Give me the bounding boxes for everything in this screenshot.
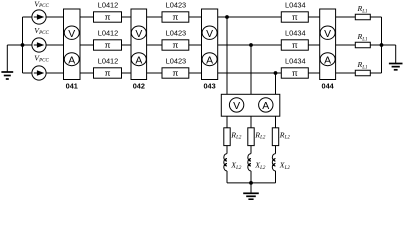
junction right bus node: [380, 43, 384, 47]
measurement block 044 outline: [320, 9, 336, 80]
junction bottom bus node: [249, 181, 253, 185]
wire block 044 to R_L1 phase 1: [336, 16, 356, 18]
pi-section line block L0423: [162, 40, 189, 50]
resistor R_L1 phase 1: [355, 14, 370, 20]
inductor X_L2 phase 2: [248, 154, 251, 171]
svg-text:L0434: L0434: [285, 56, 306, 65]
svg-text:L0412: L0412: [98, 28, 119, 37]
wire block 044 to R_L1 phase 2: [336, 44, 356, 46]
voltage source V_PCC phase 3: [32, 66, 46, 80]
voltage source V_PCC phase 2: [32, 38, 46, 52]
wire drop to load measurement phase 2: [250, 45, 252, 94]
wire R_L1 to right bus phase 3: [370, 72, 381, 74]
voltmeter V in block 042: [131, 26, 146, 40]
svg-text:L0423: L0423: [166, 28, 187, 37]
wire line L0434 to block 044 phase 3: [308, 72, 319, 74]
svg-text:044: 044: [322, 81, 335, 90]
wire R_L2 to X_L2 phase 2: [250, 146, 252, 154]
wire source to block 041 phase 1: [46, 16, 64, 18]
svg-text:π: π: [105, 68, 111, 78]
pi-section line block L0423: [162, 68, 189, 78]
wire block 043 to line L0434 phase 2: [218, 44, 282, 46]
measurement block 042 outline: [131, 9, 147, 80]
svg-text:L0434: L0434: [285, 28, 306, 37]
svg-text:π: π: [172, 68, 178, 78]
wire line L0423 to block 043 phase 3: [189, 72, 202, 74]
svg-text:RL2: RL2: [254, 130, 266, 140]
svg-text:RL2: RL2: [230, 130, 242, 140]
wire load block to R_L2 phase 1: [226, 116, 228, 128]
wire left bus to source phase 2: [23, 44, 33, 46]
ammeter A in block 042: [131, 53, 146, 67]
wire block 043 to line L0434 phase 1: [218, 16, 282, 18]
svg-text:041: 041: [66, 81, 78, 90]
ground bottom (load star point): [243, 183, 259, 199]
svg-text:V: V: [135, 29, 142, 40]
svg-text:π: π: [172, 40, 178, 50]
wire load block to R_L2 phase 3: [275, 116, 277, 128]
wire R_L1 to right bus phase 2: [370, 44, 381, 46]
svg-text:V: V: [206, 29, 213, 40]
ground right (R_L1 star point): [389, 45, 403, 70]
wire line L0423 to block 043 phase 2: [189, 44, 202, 46]
voltmeter V in block 043: [202, 26, 217, 40]
ground left (PCC reference): [1, 45, 13, 79]
ammeter A in block 041: [64, 53, 79, 67]
wire right bus vertical: [381, 17, 383, 73]
voltage source V_PCC phase 1: [32, 10, 46, 24]
wire X_L2 to bottom bus phase 2: [250, 171, 252, 183]
measurement block 041 outline: [64, 9, 81, 80]
wire line L0434 to block 044 phase 2: [308, 44, 319, 46]
wire R_L2 to X_L2 phase 1: [226, 146, 228, 154]
resistor R_L1 phase 2: [355, 42, 370, 48]
voltmeter V in block 041: [64, 26, 79, 40]
wire line L0412 to block 042 phase 1: [122, 16, 132, 18]
svg-text:L0423: L0423: [166, 0, 187, 9]
svg-text:VPCC: VPCC: [34, 0, 49, 9]
wire R_L1 to right bus phase 1: [370, 16, 381, 18]
wire bottom bus: [227, 182, 276, 184]
wire source to block 041 phase 2: [46, 44, 64, 46]
pi-section line block L0434: [281, 12, 308, 22]
wire source to block 041 phase 3: [46, 72, 64, 74]
load measurement block outline: [221, 94, 279, 116]
wire left bus vertical: [22, 17, 24, 73]
svg-text:L0412: L0412: [98, 56, 119, 65]
wire right bus to ground elbow: [382, 44, 396, 46]
voltmeter V in load block: [229, 98, 243, 112]
ammeter A in block 043: [202, 53, 217, 67]
svg-text:A: A: [324, 55, 331, 66]
svg-text:A: A: [262, 100, 269, 112]
svg-text:RL2: RL2: [279, 130, 291, 140]
svg-text:VPCC: VPCC: [34, 54, 49, 64]
svg-text:XL2: XL2: [230, 161, 242, 171]
svg-text:RL1: RL1: [357, 4, 368, 14]
svg-text:L0412: L0412: [98, 0, 119, 9]
svg-text:π: π: [292, 40, 298, 50]
junction load tap node phase 1: [225, 15, 229, 19]
svg-text:VPCC: VPCC: [34, 26, 49, 36]
wire line L0412 to block 042 phase 2: [122, 44, 132, 46]
svg-text:π: π: [105, 12, 111, 22]
junction load tap node phase 3: [274, 71, 278, 75]
wire line L0423 to block 043 phase 1: [189, 16, 202, 18]
svg-text:V: V: [233, 100, 240, 112]
wire drop to load measurement phase 3: [275, 73, 277, 94]
svg-text:L0434: L0434: [285, 0, 306, 9]
pi-section line block L0412: [94, 12, 122, 22]
wire block 041 to line L0412 phase 1: [80, 16, 94, 18]
svg-text:XL2: XL2: [254, 161, 266, 171]
svg-text:043: 043: [204, 81, 216, 90]
svg-text:V: V: [324, 29, 331, 40]
svg-text:π: π: [292, 68, 298, 78]
inductor X_L2 phase 3: [272, 154, 275, 171]
svg-text:L0423: L0423: [166, 56, 187, 65]
voltmeter V in block 044: [320, 26, 335, 40]
svg-text:A: A: [135, 55, 142, 66]
svg-text:V: V: [68, 29, 75, 40]
ammeter A in block 044: [320, 53, 335, 67]
wire R_L2 to X_L2 phase 3: [275, 146, 277, 154]
ammeter A in load block: [259, 98, 273, 112]
resistor R_L2 phase 2: [248, 128, 254, 146]
wire X_L2 to bottom bus phase 3: [275, 171, 277, 183]
wire ground to left bus: [7, 44, 22, 46]
pi-section line block L0423: [162, 12, 189, 22]
wire drop to load measurement phase 1: [226, 17, 228, 94]
svg-text:XL2: XL2: [279, 161, 291, 171]
svg-text:π: π: [172, 12, 178, 22]
svg-text:RL1: RL1: [357, 32, 368, 42]
resistor R_L2 phase 1: [224, 128, 230, 146]
wire line L0434 to block 044 phase 1: [308, 16, 319, 18]
pi-section line block L0434: [281, 68, 308, 78]
measurement block 043 outline: [202, 9, 218, 80]
wire load block to R_L2 phase 2: [250, 116, 252, 128]
svg-text:042: 042: [133, 81, 145, 90]
pi-section line block L0412: [94, 40, 122, 50]
resistor R_L2 phase 3: [272, 128, 278, 146]
wire block 042 to line L0423 phase 2: [147, 44, 162, 46]
pi-section line block L0434: [281, 40, 308, 50]
wire block 041 to line L0412 phase 3: [80, 72, 94, 74]
svg-text:A: A: [206, 55, 213, 66]
wire X_L2 to bottom bus phase 1: [226, 171, 228, 183]
svg-text:RL1: RL1: [357, 60, 368, 70]
pi-section line block L0412: [94, 68, 122, 78]
svg-text:A: A: [68, 55, 75, 66]
resistor R_L1 phase 3: [355, 70, 370, 76]
wire block 042 to line L0423 phase 3: [147, 72, 162, 74]
junction load tap node phase 2: [249, 43, 253, 47]
wire block 041 to line L0412 phase 2: [80, 44, 94, 46]
wire block 044 to R_L1 phase 3: [336, 72, 356, 74]
svg-text:π: π: [105, 40, 111, 50]
wire left bus to source phase 3: [23, 72, 33, 74]
svg-text:π: π: [292, 12, 298, 22]
wire block 042 to line L0423 phase 1: [147, 16, 162, 18]
junction left bus node: [21, 43, 25, 47]
wire left bus to source phase 1: [23, 16, 33, 18]
inductor X_L2 phase 1: [224, 154, 227, 171]
wire line L0412 to block 042 phase 3: [122, 72, 132, 74]
wire block 043 to line L0434 phase 3: [218, 72, 282, 74]
